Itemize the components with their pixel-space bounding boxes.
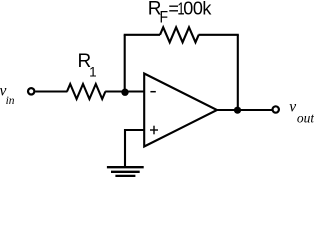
node B (output junction dot) xyxy=(234,107,241,114)
wire (op-amp output) xyxy=(217,109,273,111)
terminal (input open circle) xyxy=(28,88,34,94)
wire (feedback left vertical) xyxy=(124,35,126,92)
svg-text:k: k xyxy=(202,0,212,18)
svg-text:F: F xyxy=(160,8,169,26)
node A (inverting input junction dot) xyxy=(121,89,128,96)
label v_out xyxy=(289,98,315,125)
label RF=100k xyxy=(148,0,213,27)
label R1 xyxy=(78,51,97,79)
svg-text:1: 1 xyxy=(89,64,97,79)
wire (feedback right vertical) xyxy=(237,35,239,110)
label v_in xyxy=(0,82,15,106)
wire (feedback top right) xyxy=(199,34,239,36)
op-amp U1 xyxy=(144,74,217,147)
wire (feedback top left) xyxy=(124,34,160,36)
resistor R1 xyxy=(67,84,105,99)
wire (R1 to inverting input) xyxy=(105,90,144,92)
svg-text:in: in xyxy=(6,95,15,107)
wire (input to R1) xyxy=(35,90,67,92)
resistor RF xyxy=(160,27,199,42)
wire (non-inverting input to ground) xyxy=(125,130,145,166)
ground xyxy=(107,167,144,176)
svg-text:0: 0 xyxy=(183,0,193,18)
svg-text:out: out xyxy=(297,110,314,125)
svg-text:v: v xyxy=(289,98,296,115)
terminal (output open circle) xyxy=(273,106,279,112)
